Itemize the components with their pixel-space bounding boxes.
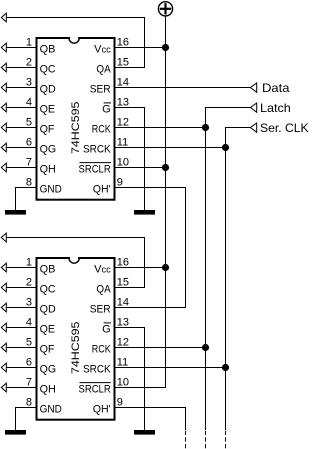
svg-text:8: 8 bbox=[26, 177, 32, 189]
wire U1 pin 13 OE (G) to ground bbox=[116, 108, 145, 211]
svg-text:QG: QG bbox=[40, 143, 57, 155]
svg-text:12: 12 bbox=[117, 337, 129, 349]
ground symbol (U2 G enable) bbox=[134, 430, 155, 435]
svg-text:SRCK: SRCK bbox=[83, 143, 111, 155]
wire U1 pin 2 output with connector arrow bbox=[1, 63, 35, 72]
U2 pin 14 SER: pin number and label bbox=[90, 297, 129, 316]
svg-text:SRCLR: SRCLR bbox=[79, 383, 111, 395]
U1 pin 3 QD: pin number and label bbox=[26, 77, 56, 96]
svg-text:GND: GND bbox=[40, 183, 62, 195]
wire U2 pin 8 GND to ground bbox=[16, 408, 36, 431]
U1 pin 7 QH: pin number and label bbox=[26, 157, 56, 176]
wire U2 pin 4 output with connector arrow bbox=[1, 323, 35, 332]
wire U1 pin 12 RCK to Latch net bbox=[116, 127, 206, 129]
svg-text:SER: SER bbox=[90, 303, 111, 315]
svg-text:SER: SER bbox=[90, 83, 111, 95]
svg-text:7: 7 bbox=[26, 377, 32, 389]
U2 pin 9 QH&#39;: pin number and label bbox=[93, 397, 123, 416]
wire U1 pin 1 output with connector arrow bbox=[1, 43, 35, 52]
U2 pin 1 QB: pin number and label bbox=[26, 257, 56, 276]
junction U2 SRCK / Ser. CLK bbox=[222, 364, 229, 371]
U1 pin 6 QG: pin number and label bbox=[26, 137, 56, 156]
wire U2 pin 15 QA to left connector arrow bbox=[1, 233, 144, 287]
power symbol +V (circle with plus) bbox=[158, 2, 172, 16]
svg-text:13: 13 bbox=[117, 97, 129, 109]
svg-text:13: 13 bbox=[117, 317, 129, 329]
wire U2 pin 13 OE (G) to ground bbox=[116, 328, 145, 431]
svg-text:3: 3 bbox=[26, 297, 32, 309]
U1 pin 12 RCK: pin number and label bbox=[92, 117, 129, 136]
junction U1 SRCLR / Vcc bbox=[162, 164, 169, 171]
wire U1 pin 16 Vcc to Vcc rail bbox=[116, 47, 166, 49]
U2 pin 7 QH: pin number and label bbox=[26, 377, 56, 396]
wire Data net: U1 pin 14 SER to Data connector bbox=[116, 83, 257, 92]
U1 pin 5 QF: pin number and label bbox=[26, 117, 55, 136]
U2 pin 11 SRCK: pin number and label bbox=[83, 357, 128, 376]
svg-text:12: 12 bbox=[117, 117, 129, 129]
svg-text:9: 9 bbox=[117, 177, 123, 189]
svg-text:11: 11 bbox=[117, 357, 128, 369]
svg-text:74HC595: 74HC595 bbox=[70, 102, 82, 155]
wire U2 pin 16 Vcc to Vcc rail bbox=[116, 267, 166, 269]
U2 pin 10 SRCLR: pin number and label bbox=[79, 377, 130, 396]
svg-text:SRCLR: SRCLR bbox=[79, 163, 111, 175]
wire U1 pin 11 SRCK to Ser. CLK net bbox=[116, 147, 226, 149]
U2 pin 6 QG: pin number and label bbox=[26, 357, 56, 376]
svg-text:Latch: Latch bbox=[260, 101, 291, 115]
svg-text:1: 1 bbox=[26, 257, 32, 269]
svg-text:QH: QH bbox=[40, 163, 56, 175]
svg-text:G: G bbox=[102, 323, 111, 335]
svg-text:3: 3 bbox=[26, 77, 32, 89]
U1 pin 8 GND: pin number and label bbox=[26, 177, 62, 196]
svg-text:QD: QD bbox=[40, 303, 56, 315]
wire U2 pin 3 output with connector arrow bbox=[1, 303, 35, 312]
IC U1 74HC595 body bbox=[37, 34, 115, 200]
junction U1 Vcc rail bbox=[162, 44, 169, 51]
IC U2 74HC595 body bbox=[37, 254, 115, 420]
wire U1 pin 6 output with connector arrow bbox=[1, 143, 35, 152]
wire U1 pin 10 SRCLR to Vcc rail bbox=[116, 167, 166, 169]
U1 pin 16 Vcc: pin number and label bbox=[94, 37, 129, 56]
junction U1 SRCK / Ser. CLK bbox=[222, 144, 229, 151]
svg-text:6: 6 bbox=[26, 137, 32, 149]
svg-text:8: 8 bbox=[26, 397, 32, 409]
svg-text:15: 15 bbox=[117, 57, 129, 69]
U1 pin 4 QE: pin number and label bbox=[26, 97, 55, 116]
U1 pin 1 QB: pin number and label bbox=[26, 37, 56, 56]
svg-text:16: 16 bbox=[117, 37, 129, 49]
wire U1 pin 5 output with connector arrow bbox=[1, 123, 35, 132]
svg-text:5: 5 bbox=[26, 117, 32, 129]
svg-text:QE: QE bbox=[40, 323, 55, 335]
wire U1 pin 4 output with connector arrow bbox=[1, 103, 35, 112]
svg-text:QF: QF bbox=[40, 123, 55, 135]
ground symbol (U1 GND) bbox=[5, 210, 26, 215]
wire U2 pin 9 QH' output, dashed continuation bbox=[116, 408, 186, 449]
U1 pin 13 G: pin number and label bbox=[102, 97, 129, 116]
wire U2 pin 2 output with connector arrow bbox=[1, 283, 35, 292]
svg-text:GND: GND bbox=[40, 403, 62, 415]
svg-text:QE: QE bbox=[40, 103, 55, 115]
svg-text:1: 1 bbox=[26, 37, 32, 49]
svg-text:4: 4 bbox=[26, 97, 32, 109]
svg-text:9: 9 bbox=[117, 397, 123, 409]
wire U1 pin 15 QA to left connector arrow bbox=[1, 13, 144, 67]
U1 pin 15 QA: pin number and label bbox=[96, 57, 129, 76]
U1 pin 14 SER: pin number and label bbox=[90, 77, 129, 96]
U1 pin 11 SRCK: pin number and label bbox=[83, 137, 128, 156]
svg-text:15: 15 bbox=[117, 277, 129, 289]
svg-text:2: 2 bbox=[26, 57, 32, 69]
svg-text:QB: QB bbox=[40, 43, 56, 55]
wire Vcc rail from +V down to U2 pin 10 SRCLR bbox=[116, 16, 166, 388]
svg-text:QH: QH bbox=[40, 383, 56, 395]
U2 pin 4 QE: pin number and label bbox=[26, 317, 55, 336]
svg-text:16: 16 bbox=[117, 257, 129, 269]
wire Ser. CLK net: connector down to U2 SRCK, dashed continuation bbox=[226, 123, 257, 449]
U2 pin 13 G: pin number and label bbox=[102, 317, 129, 336]
svg-text:Ser. CLK: Ser. CLK bbox=[260, 121, 309, 135]
svg-text:QA: QA bbox=[96, 283, 111, 295]
wire U2 pin 11 SRCK to Ser. CLK net bbox=[116, 367, 226, 369]
svg-text:74HC595: 74HC595 bbox=[70, 322, 82, 375]
svg-text:10: 10 bbox=[117, 157, 129, 169]
wire U2 pin 1 output with connector arrow bbox=[1, 263, 35, 272]
svg-text:2: 2 bbox=[26, 277, 32, 289]
U2 pin 2 QC: pin number and label bbox=[26, 277, 56, 296]
svg-text:7: 7 bbox=[26, 157, 32, 169]
svg-text:Data: Data bbox=[262, 81, 290, 95]
svg-text:5: 5 bbox=[26, 337, 32, 349]
wire U1 pin 7 output with connector arrow bbox=[1, 163, 35, 172]
svg-text:Vcc: Vcc bbox=[94, 43, 111, 55]
U2 pin 15 QA: pin number and label bbox=[96, 277, 129, 296]
wire U2 pin 7 output with connector arrow bbox=[1, 383, 35, 392]
svg-text:QB: QB bbox=[40, 263, 56, 275]
wire U1 pin 9 QH' to U2 pin 14 SER (cascade) bbox=[116, 188, 186, 308]
U2 pin 16 Vcc: pin number and label bbox=[94, 257, 129, 276]
svg-text:11: 11 bbox=[117, 137, 128, 149]
junction U1 RCK / Latch bbox=[202, 124, 209, 131]
svg-text:QC: QC bbox=[40, 283, 56, 295]
U1 pin 9 QH&#39;: pin number and label bbox=[93, 177, 123, 196]
junction U2 RCK / Latch bbox=[202, 344, 209, 351]
svg-text:10: 10 bbox=[117, 377, 129, 389]
svg-text:14: 14 bbox=[117, 297, 129, 309]
svg-text:RCK: RCK bbox=[92, 343, 111, 355]
svg-text:QH': QH' bbox=[93, 183, 111, 195]
svg-text:QA: QA bbox=[96, 63, 111, 75]
svg-text:14: 14 bbox=[117, 77, 129, 89]
svg-text:QF: QF bbox=[40, 343, 55, 355]
U2 pin 5 QF: pin number and label bbox=[26, 337, 55, 356]
svg-text:Vcc: Vcc bbox=[94, 263, 111, 275]
svg-text:G: G bbox=[102, 103, 111, 115]
U2 pin 12 RCK: pin number and label bbox=[92, 337, 129, 356]
svg-text:QC: QC bbox=[40, 63, 56, 75]
wire U2 pin 12 RCK to Latch net bbox=[116, 347, 206, 349]
U2 pin 8 GND: pin number and label bbox=[26, 397, 62, 416]
svg-text:4: 4 bbox=[26, 317, 32, 329]
svg-text:QH': QH' bbox=[93, 403, 111, 415]
wire Latch net: connector down to U2 RCK, dashed continuation bbox=[206, 103, 257, 449]
junction U2 Vcc rail bbox=[162, 264, 169, 271]
svg-text:QG: QG bbox=[40, 363, 57, 375]
U1 pin 10 SRCLR: pin number and label bbox=[79, 157, 130, 176]
U1 pin 2 QC: pin number and label bbox=[26, 57, 56, 76]
svg-text:SRCK: SRCK bbox=[83, 363, 111, 375]
svg-text:6: 6 bbox=[26, 357, 32, 369]
wire U1 pin 3 output with connector arrow bbox=[1, 83, 35, 92]
svg-text:QD: QD bbox=[40, 83, 56, 95]
U2 pin 3 QD: pin number and label bbox=[26, 297, 56, 316]
wire U2 pin 5 output with connector arrow bbox=[1, 343, 35, 352]
wire U2 pin 6 output with connector arrow bbox=[1, 363, 35, 372]
svg-text:RCK: RCK bbox=[92, 123, 111, 135]
ground symbol (U2 GND) bbox=[5, 430, 26, 435]
wire U1 pin 8 GND to ground bbox=[16, 188, 36, 211]
ground symbol (U1 G enable) bbox=[134, 210, 155, 215]
